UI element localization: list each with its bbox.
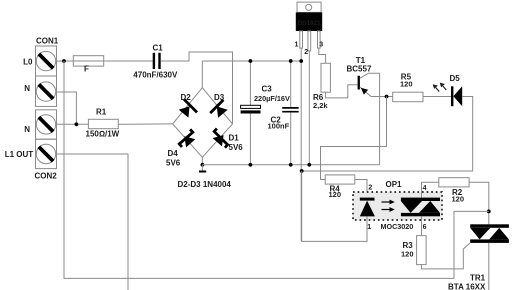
svg-text:T1: T1 [356,56,366,65]
opto arrows [382,200,395,212]
svg-text:150Ω/1W: 150Ω/1W [86,130,120,139]
svg-text:220µF/16V: 220µF/16V [254,94,290,103]
svg-text:1: 1 [295,42,299,49]
diode D3 [210,93,228,118]
resistor R5 [393,73,423,102]
wire pin1 down [300,48,302,241]
svg-text:L0: L0 [23,58,33,67]
svg-text:C1: C1 [153,44,164,53]
svg-text:120: 120 [329,190,342,199]
svg-text:120: 120 [401,249,414,258]
svg-text:120: 120 [400,80,413,89]
resistor R6 [313,63,330,110]
resistor R2 [439,178,469,204]
svg-text:CON1: CON1 [36,37,59,46]
wire R4 to OP1 pin2 [355,180,367,198]
wire bridge bottom to ground rail [201,157,203,165]
led D5 [433,74,463,106]
svg-text:D4: D4 [168,149,179,158]
svg-text:2,2k: 2,2k [313,101,328,110]
svg-text:1: 1 [367,224,371,231]
sensor U1 DS1821 [296,2,322,51]
opto triac [401,198,440,217]
wire ground rail [202,164,379,166]
wire R2 to TR1 top [469,182,489,224]
svg-text:N: N [24,84,30,93]
capacitor C1 [133,44,178,80]
node junction C3 bottom [249,163,253,167]
svg-text:D5: D5 [450,74,461,83]
resistor R4 [325,175,355,199]
wire R1 to bridge left vertex [118,123,172,125]
wire N to N junction [57,92,77,124]
node junction TR1 top [487,210,491,214]
svg-text:470nF/630V: 470nF/630V [133,71,178,80]
zener D4 [166,129,195,167]
node junction emitter [385,95,389,99]
svg-text:2: 2 [368,185,372,192]
svg-text:2: 2 [304,49,308,56]
node junction pin1 rail [299,59,303,63]
svg-text:6: 6 [423,224,427,231]
wire +5V top rail [202,60,301,62]
capacitor C3 [241,61,290,165]
opto LED [360,198,375,217]
wire node to bottom rail [454,211,489,278]
svg-text:D2-D3 1N4004: D2-D3 1N4004 [178,180,232,189]
triac TR1 [448,224,509,290]
node junction C3 top [249,59,253,63]
svg-text:F: F [84,65,89,74]
wire OP1 pin4 to R2 [422,182,439,197]
wire L0 to fuse [57,60,74,62]
node junction L0 [62,59,66,63]
svg-text:D1: D1 [229,134,240,143]
node junction C2 bottom [289,163,293,167]
svg-text:120: 120 [452,194,465,203]
capacitor C2 [268,61,299,165]
fuse F [73,56,153,74]
connector CON2 [35,110,58,181]
wire R6 to T1 base [326,85,358,98]
bridge outline wires [173,88,233,158]
wire D5 down and left to node [302,97,473,172]
svg-text:TR1: TR1 [470,274,486,283]
resistor R3 [401,236,426,265]
node junction pin2 ground [307,163,311,167]
svg-text:MOC3020: MOC3020 [381,222,414,231]
wire TR1 bottom [488,243,490,290]
wire bridge top to +rail [201,61,203,88]
svg-text:OP1: OP1 [386,180,403,189]
transistor T1 BC557 [347,56,393,165]
wire OP1 pin1 loop [302,171,367,241]
node junction C2 top [289,59,293,63]
node junction led return [300,169,304,173]
svg-text:BC557: BC557 [347,65,372,74]
wire R5 to D5 [423,96,451,98]
wire N2 to R1 [57,123,89,125]
wire pin2 down to ground [308,51,310,165]
connector CON1 [36,37,59,107]
svg-text:C3: C3 [262,85,273,94]
svg-text:D2: D2 [181,93,192,102]
wire L1 OUT down [57,154,129,290]
wire C1 to bridge right vertex [161,52,233,124]
svg-text:BTA 16XX: BTA 16XX [448,283,486,290]
svg-text:D3: D3 [214,93,225,102]
node junction bridge bottom [201,163,205,167]
wire R3 to TR1 gate [421,243,470,269]
diode D2 [179,93,197,118]
svg-text:5V6: 5V6 [229,143,244,152]
svg-text:100nF: 100nF [268,121,290,130]
svg-text:4: 4 [423,185,427,192]
svg-text:N: N [24,125,30,134]
wire emitter node down to R4 feed [321,97,387,180]
svg-text:5V6: 5V6 [166,158,181,167]
optocoupler OP1 MOC3020 [353,180,442,231]
node junction N [75,122,79,126]
svg-text:R1: R1 [96,107,107,116]
wire OP1 pin6 to R3 [421,216,423,235]
ground [199,165,206,172]
svg-text:3: 3 [319,42,323,49]
wire L0 down to bottom rail [64,61,454,278]
svg-text:DS1821: DS1821 [298,20,321,27]
zener D1 [213,129,244,153]
wire pin3 to R6 [319,48,326,63]
svg-text:L1 OUT: L1 OUT [5,150,34,159]
resistor R1 [86,107,120,138]
svg-text:CON2: CON2 [35,171,58,180]
